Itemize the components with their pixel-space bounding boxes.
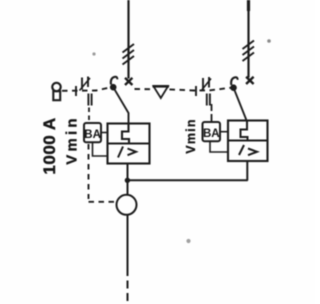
latch contact cluster right xyxy=(196,77,211,106)
circuit breaker QF1: latch hook xyxy=(111,77,118,85)
undervoltage release box BA2 xyxy=(203,122,221,141)
dashed control linkage corner to meter xyxy=(89,201,117,203)
latch step symbol in relay box 1 xyxy=(122,124,129,145)
mechanical interlock dashed line (left span) xyxy=(62,87,111,91)
speck xyxy=(92,52,95,55)
wire: right incoming feeder xyxy=(247,0,249,78)
mechanical interlock dashed line (mid span) xyxy=(135,88,153,90)
circuit breaker QF2: fixed contact X xyxy=(246,77,254,84)
circuit breaker QF1: blade xyxy=(113,87,128,123)
speck xyxy=(267,39,271,43)
latch step symbol in relay box 2 xyxy=(241,121,248,142)
meter circle xyxy=(117,195,137,215)
I> label in relay box 1 xyxy=(118,147,123,158)
dashed link: cluster to BA2 xyxy=(211,104,213,122)
relay box 1 xyxy=(108,124,150,164)
circuit breaker QF2: blade xyxy=(234,88,247,121)
latch contact cluster left xyxy=(76,77,92,106)
svg-text:Vmin: Vmin xyxy=(184,118,198,153)
svg-text:BA: BA xyxy=(84,129,101,141)
lock symbol xyxy=(52,83,60,100)
dashed control linkage down from BA1 xyxy=(88,144,90,199)
3-phase slash marks left feeder xyxy=(123,44,135,65)
circuit breaker QF2: latch hook xyxy=(231,77,238,85)
wire: relay box 2 down to bus tie xyxy=(246,161,248,181)
junction node xyxy=(125,178,130,183)
svg-text:BA: BA xyxy=(203,128,220,140)
circuit breaker QF2: pivot blob xyxy=(230,84,237,91)
circuit breaker QF1: pivot blob xyxy=(110,84,117,91)
wire: BA2 bottom L-link xyxy=(210,141,228,152)
mechanical interlock dashed line (right span) xyxy=(170,88,231,91)
wire: bus tie horizontal xyxy=(127,179,248,181)
wire: outgoing feeder below meter xyxy=(127,215,129,268)
speck xyxy=(186,239,190,243)
svg-text:1000 A: 1000 A xyxy=(40,117,59,174)
wire: relay box 1 to junction xyxy=(127,164,129,196)
wire: BA1 to relay box xyxy=(102,132,108,134)
wire: BA2 to relay box xyxy=(220,131,228,133)
circuit breaker QF1: fixed contact X xyxy=(125,78,132,85)
svg-text:Vmin: Vmin xyxy=(64,115,81,164)
triangle symbol on interlock line xyxy=(154,86,169,98)
wire: BA1 bottom L-link xyxy=(93,142,108,157)
relay box 2 xyxy=(228,121,268,162)
dashed link: cluster to BA1 xyxy=(88,108,90,123)
I> label in relay box 2 xyxy=(239,145,244,155)
3-phase slash marks right feeder xyxy=(243,41,255,62)
undervoltage release box BA1 xyxy=(84,123,101,142)
wire: left incoming feeder xyxy=(127,0,129,79)
